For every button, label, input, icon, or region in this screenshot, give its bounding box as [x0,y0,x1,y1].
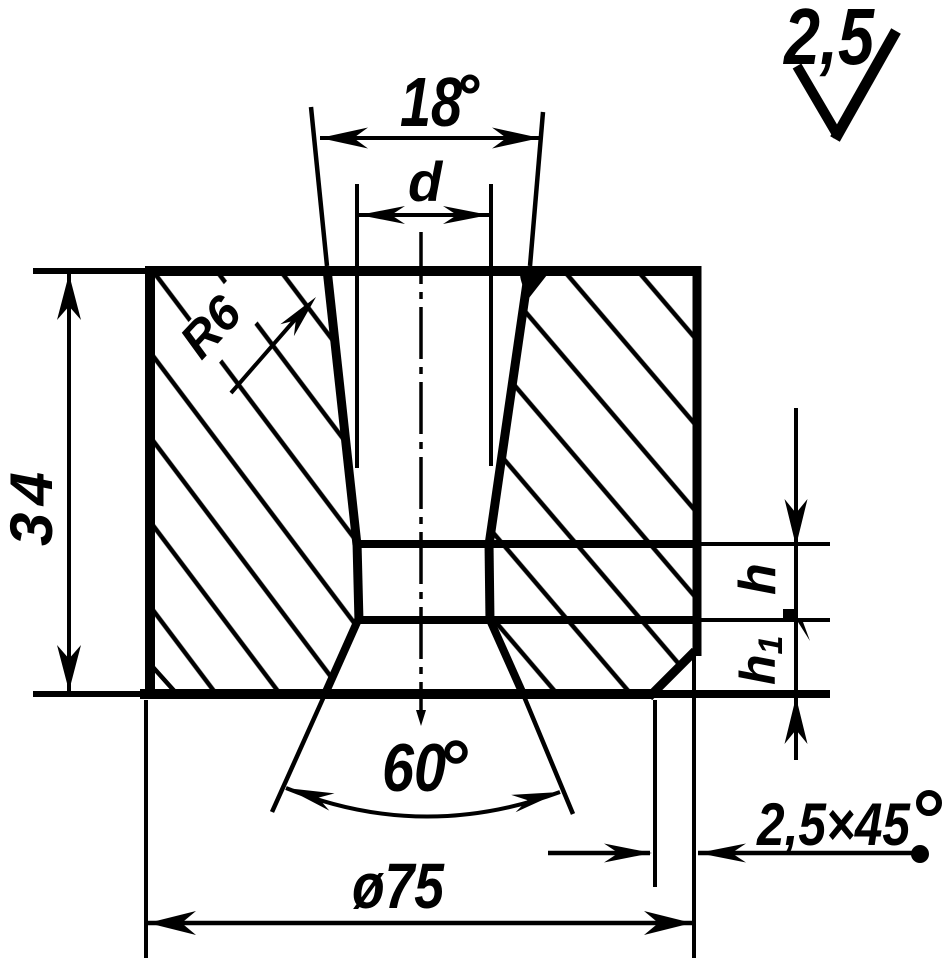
18deg dimension line [320,136,540,140]
arrow 18deg left [320,128,368,149]
taper 18deg right extension line [530,112,543,266]
chamfer dim line left part [548,851,650,856]
svg-text:ø75: ø75 [352,850,445,922]
centerline (dash-dot) [419,232,423,712]
hatched right section block [489,271,697,695]
cone left extension line [272,694,325,812]
land bore right wall [489,542,490,622]
chamfer extension line [653,700,657,887]
land bottom edge line [358,616,701,624]
h dimension line [794,408,798,760]
34 dimension line [67,274,71,691]
chamfer leader end dot [911,845,929,863]
R6 leader line [231,307,306,393]
dia75 dimension line [148,921,692,926]
arrow dia75 right [644,911,692,935]
fillet at hole top-right corner [520,275,547,298]
hatched left section block [150,271,359,694]
arrow chamfer left (points right) [604,844,652,863]
chamfer 2.5x45 edge [649,651,695,697]
svg-text:18: 18 [400,63,462,141]
d right extension line [489,184,493,466]
cone right extension line [523,694,573,814]
land top extension line right [701,542,830,546]
chamfer dim line right part [698,851,922,856]
h1 separator dot [783,609,798,621]
svg-text:2,5: 2,5 [782,0,875,81]
taper hole right wall [489,269,529,545]
bottom face extension line (left and right of body) [33,691,140,697]
svg-text:60: 60 [382,730,446,806]
body right edge [693,266,702,656]
dia75 left extension line [144,700,148,958]
60deg dimension arc [286,788,560,817]
arrow chamfer right (points left) [698,844,746,863]
d dimension line [359,213,489,217]
arrow 34 bottom [57,645,81,691]
body bottom face edge [140,689,653,699]
label R6 white backing [167,272,272,379]
arrow h top (points down at land top line) [785,499,808,546]
top face extension line left [33,268,146,274]
svg-text:d: d [408,150,444,213]
arrow R6 [280,297,316,336]
body top face edge [146,266,701,276]
land bottom extension line right [701,618,830,622]
arrow h1 bottom (points up at bottom face) [785,697,808,744]
arrow dia75 left [148,911,196,935]
dia75 right extension line [692,656,696,958]
body left edge [145,266,155,699]
svg-text:h: h [729,563,787,595]
arrow 60 left [286,788,335,811]
arrow 34 top [57,274,81,320]
land bore left wall [357,542,359,622]
cone right edge [490,620,523,694]
svg-text:2,5×45: 2,5×45 [756,791,911,858]
arrow d right [443,206,489,224]
centerline tip [416,710,426,726]
arrow 60 right [511,792,560,812]
taper hole left wall [327,269,357,545]
arrow d left [359,206,405,224]
roughness check mark [797,66,838,136]
arrow 18deg right [492,128,540,149]
hatch stub at bottom-left corner [151,665,177,694]
land top edge line [354,540,701,548]
d left extension line [355,184,359,468]
cone left edge [325,620,358,694]
taper 18deg left extension line [311,107,327,266]
